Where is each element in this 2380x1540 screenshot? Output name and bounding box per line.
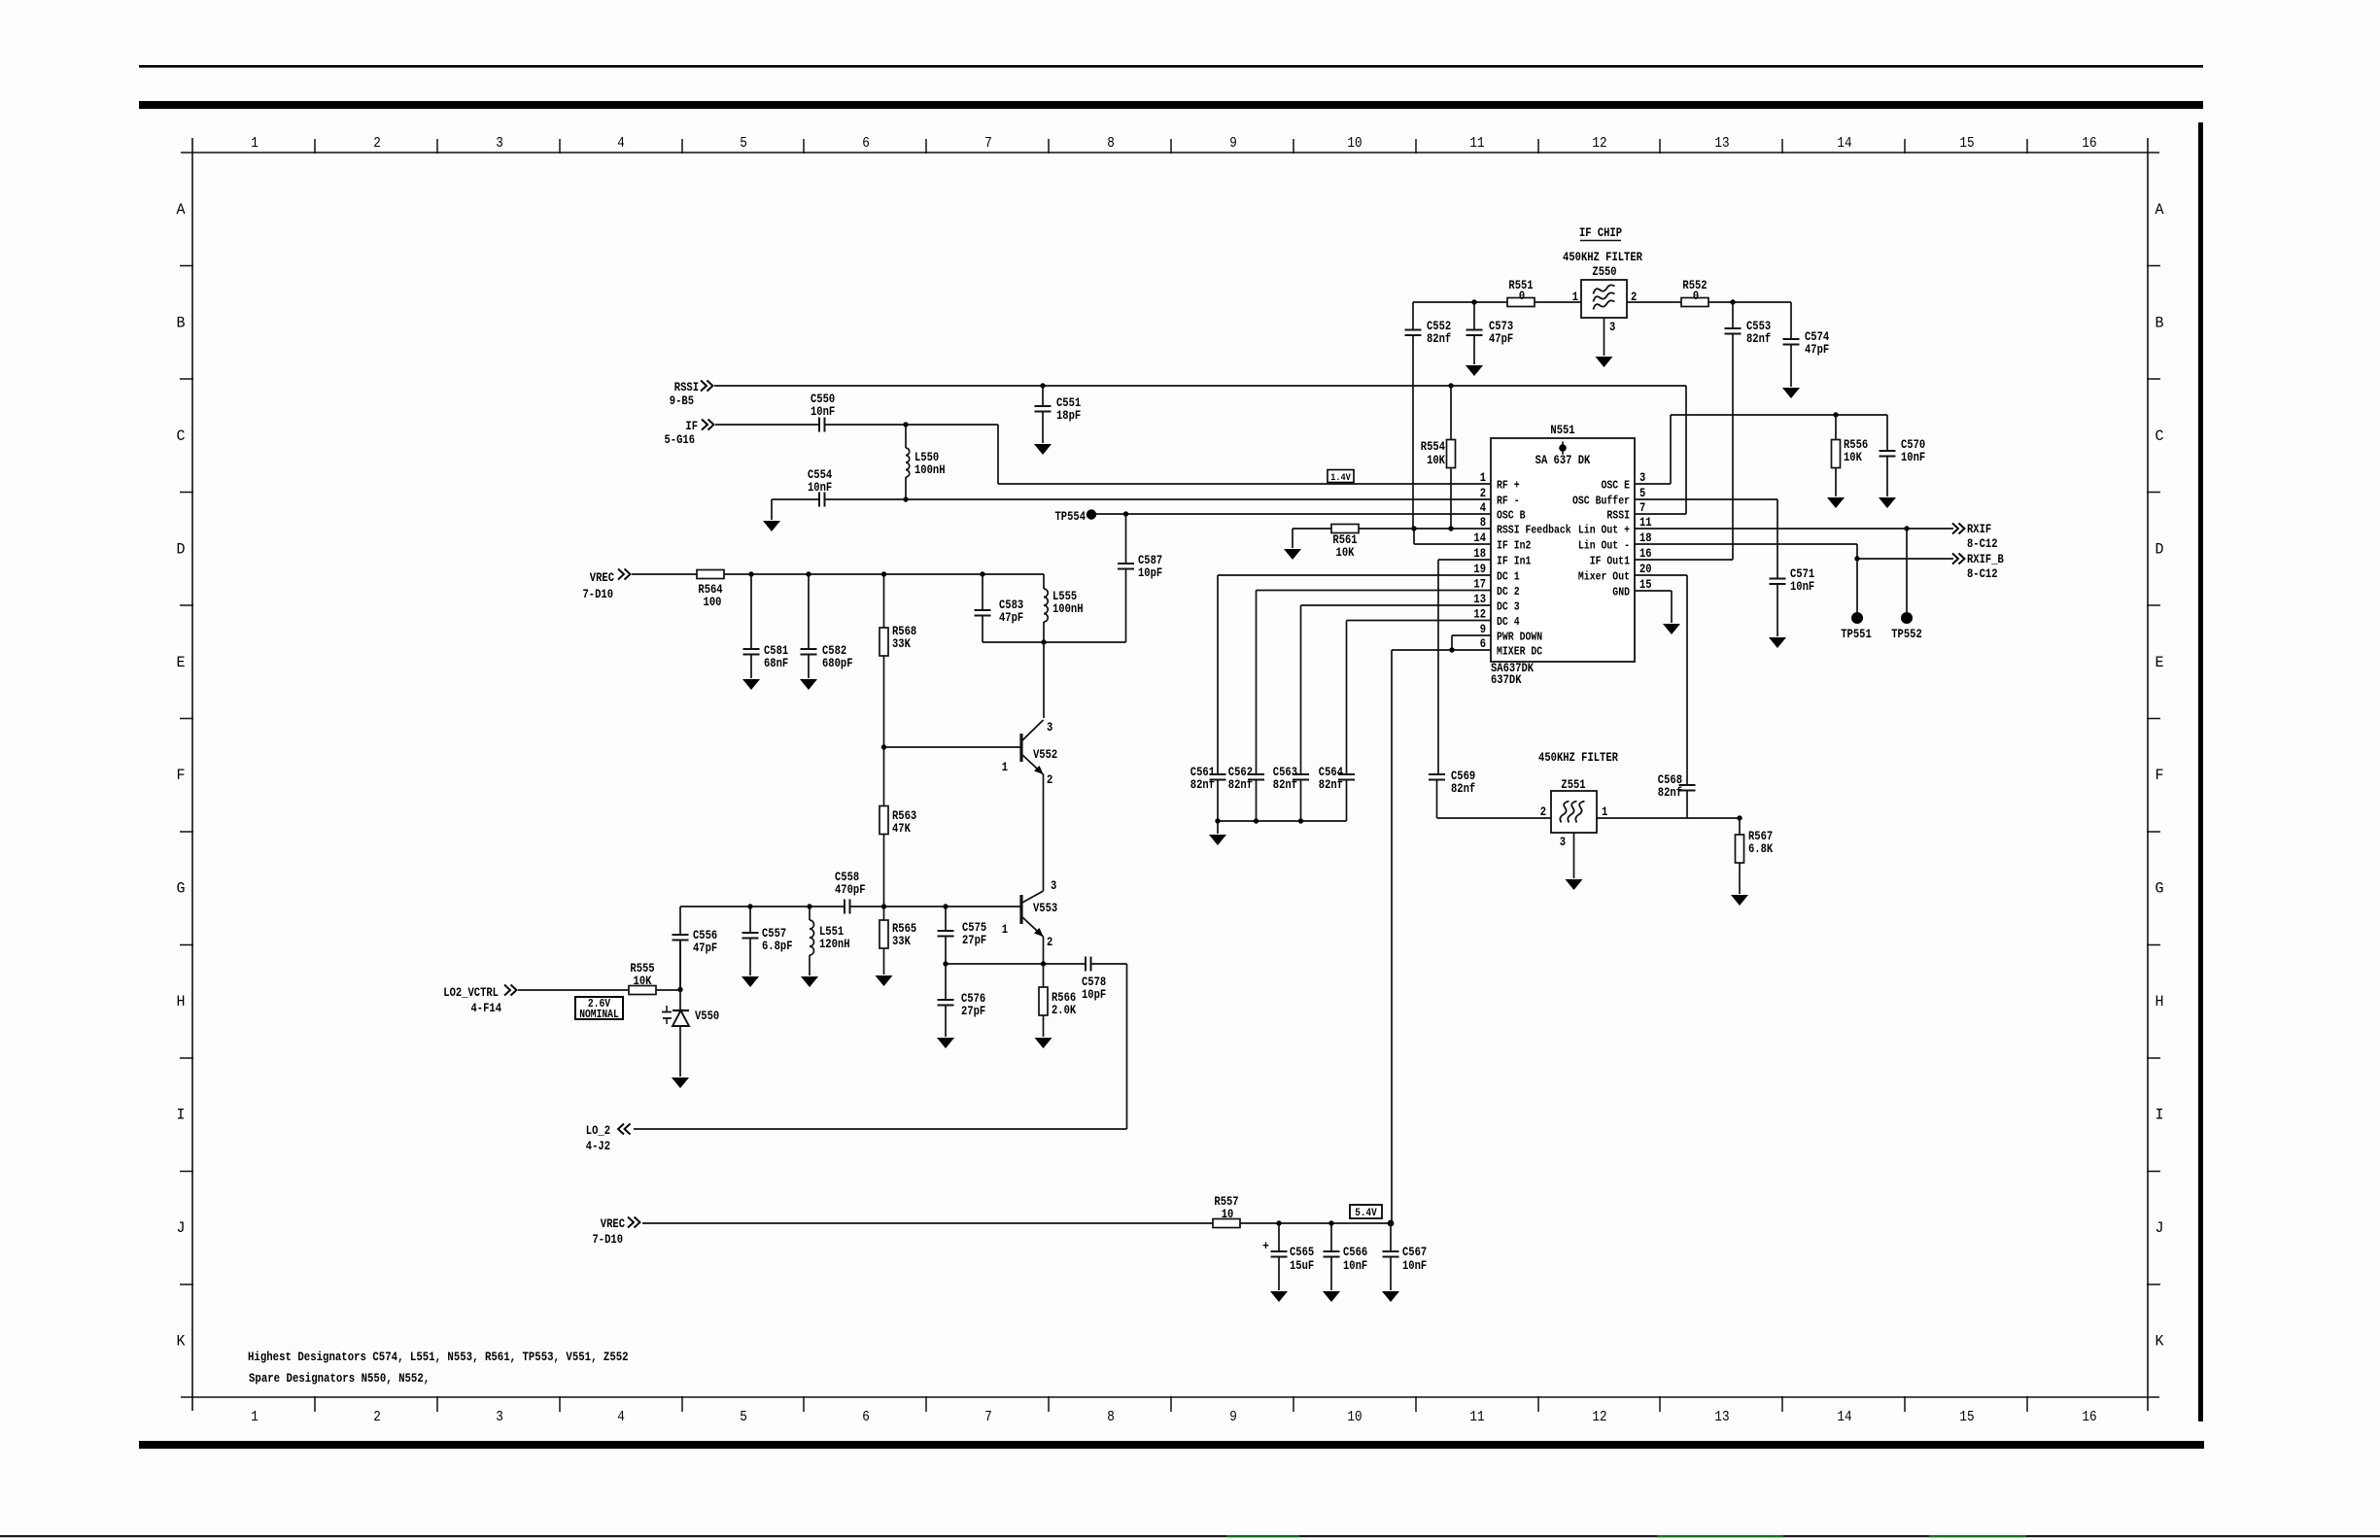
capacitor C587 [1125, 514, 1127, 564]
svg-text:C587: C587 [1138, 554, 1162, 567]
svg-text:10K: 10K [634, 975, 652, 988]
transistor V552 [1043, 642, 1045, 718]
svg-text:C582: C582 [822, 644, 846, 658]
wire R552 to C553/C574 node [1708, 301, 1791, 303]
ground below Z550 [1596, 357, 1613, 367]
svg-text:5.4V: 5.4V [1355, 1208, 1377, 1219]
capacitor C569 [1429, 773, 1445, 775]
wire R551 to Z550 [1535, 301, 1581, 303]
svg-text:7: 7 [984, 135, 992, 152]
svg-text:B: B [2156, 314, 2164, 331]
svg-text:15: 15 [1639, 578, 1652, 592]
svg-text:IF In2: IF In2 [1497, 539, 1531, 553]
ground below R567 [1731, 895, 1748, 906]
ground below C582 [800, 679, 817, 690]
wire RF+ line to pin 1 [998, 483, 1491, 485]
wire Lin Out - to RXIF_B [1635, 543, 1857, 545]
wire LO2_VCTRL to R555 [518, 989, 629, 991]
wire Z551 pin3 to ground [1573, 833, 1575, 878]
wire R555 to varactor node [656, 989, 680, 991]
svg-text:E: E [177, 654, 186, 671]
capacitor C552 [1412, 302, 1414, 330]
svg-text:450KHZ FILTER: 450KHZ FILTER [1538, 751, 1618, 765]
wire C578 to LO_2 line [1091, 963, 1127, 965]
svg-text:10K: 10K [1427, 454, 1445, 467]
svg-text:6: 6 [862, 135, 870, 152]
svg-text:C557: C557 [762, 927, 786, 941]
node RXIF_B 8-C12 [1952, 554, 1965, 565]
svg-text:H: H [2156, 993, 2164, 1010]
wire Z550 to R552 [1627, 301, 1681, 303]
svg-text:2: 2 [1540, 805, 1546, 819]
wire OSC E net [1635, 483, 1671, 485]
svg-text:5: 5 [1639, 487, 1645, 500]
svg-text:Highest Designators C574, L551: Highest Designators C574, L551, N553, R5… [248, 1350, 629, 1364]
svg-text:1: 1 [1002, 761, 1009, 774]
svg-text:68nF: 68nF [764, 657, 788, 670]
svg-text:0: 0 [1519, 290, 1525, 303]
svg-text:OSC B: OSC B [1497, 509, 1526, 523]
svg-text:IF CHIP: IF CHIP [1579, 226, 1622, 240]
svg-text:12: 12 [1592, 135, 1606, 152]
testpoint TP552 [1906, 529, 1908, 612]
svg-text:8-C12: 8-C12 [1967, 567, 1998, 581]
svg-text:33K: 33K [892, 637, 911, 651]
svg-text:16: 16 [2082, 135, 2096, 152]
wire DC4 to C564 [1347, 620, 1492, 622]
svg-text:15: 15 [1959, 135, 1974, 152]
svg-text:3: 3 [1609, 321, 1615, 334]
svg-text:2: 2 [1047, 936, 1052, 949]
capacitor C582 [808, 574, 810, 649]
svg-text:4-F14: 4-F14 [471, 1002, 502, 1015]
svg-text:C: C [177, 428, 186, 445]
capacitor C574 [1790, 302, 1792, 339]
svg-text:9-B5: 9-B5 [670, 394, 694, 408]
svg-text:OSC Buffer: OSC Buffer [1572, 495, 1630, 508]
ground below R566 [1035, 1038, 1052, 1048]
svg-text:C558: C558 [835, 871, 859, 884]
svg-text:C569: C569 [1451, 770, 1475, 783]
capacitor C550 [818, 418, 820, 432]
svg-text:I: I [177, 1107, 186, 1124]
svg-text:18: 18 [1473, 547, 1486, 561]
wire LO_2 line [634, 1128, 1127, 1130]
wire Lin Out + to RXIF [1635, 528, 1953, 530]
svg-text:MIXER DC: MIXER DC [1497, 645, 1542, 659]
resistor R551 [1507, 298, 1535, 307]
svg-text:A: A [177, 201, 187, 219]
net label 1.4V [1328, 470, 1354, 483]
svg-text:H: H [177, 993, 186, 1010]
svg-text:D: D [177, 540, 186, 558]
wire VREC to R564 [632, 573, 697, 575]
svg-text:47pF: 47pF [1489, 332, 1513, 346]
svg-text:13: 13 [1714, 1409, 1729, 1425]
svg-text:3: 3 [496, 1409, 503, 1425]
svg-text:82nf: 82nf [1273, 778, 1297, 792]
wire C550 to RF+ corner [825, 424, 999, 426]
svg-text:450KHZ FILTER: 450KHZ FILTER [1563, 251, 1642, 264]
svg-text:R564: R564 [698, 583, 723, 597]
svg-text:8: 8 [1480, 516, 1486, 530]
svg-text:VREC: VREC [601, 1217, 626, 1231]
svg-text:C578: C578 [1082, 975, 1106, 989]
wire OSC Buffer to C571 [1635, 498, 1777, 500]
svg-text:10nF: 10nF [808, 481, 832, 495]
wire C552 node to R551 [1413, 301, 1507, 303]
ground below C570 [1879, 497, 1896, 508]
resistor R567 [1739, 818, 1741, 835]
svg-text:82nf: 82nf [1228, 778, 1253, 792]
svg-text:J: J [177, 1219, 186, 1237]
svg-text:10: 10 [1347, 135, 1362, 152]
wire DC2 to C562 [1257, 590, 1492, 592]
wire V552 base line [884, 746, 1022, 748]
wire oscillator base bus [680, 906, 845, 907]
node RXIF 8-C12 [1952, 524, 1965, 534]
svg-text:7: 7 [984, 1409, 992, 1425]
capacitor C570 [1886, 415, 1888, 451]
svg-text:C553: C553 [1746, 320, 1771, 333]
svg-text:C575: C575 [962, 921, 986, 935]
svg-text:4: 4 [1480, 501, 1487, 515]
svg-text:6.8pF: 6.8pF [762, 940, 793, 953]
svg-text:L551: L551 [819, 925, 845, 939]
svg-text:F: F [2156, 767, 2164, 784]
svg-text:2: 2 [1480, 487, 1486, 500]
ground below C574 [1782, 388, 1800, 398]
svg-text:82nf: 82nf [1319, 778, 1343, 792]
svg-text:10nF: 10nF [1901, 451, 1925, 464]
wire DC1 to C561 [1218, 574, 1491, 576]
wire Mixer Out down [1635, 574, 1687, 576]
diode V550 varactor [679, 990, 681, 1011]
svg-text:12: 12 [1473, 608, 1486, 622]
svg-text:RF -: RF - [1497, 495, 1520, 508]
capacitor C578 [1085, 957, 1087, 972]
svg-text:1: 1 [1480, 471, 1487, 485]
capacitor C562 [1248, 773, 1264, 775]
svg-text:RSSI: RSSI [1606, 509, 1630, 523]
ground below pin 15 [1663, 624, 1680, 634]
svg-text:V553: V553 [1033, 902, 1057, 915]
ground below C573 [1466, 365, 1483, 376]
svg-text:11: 11 [1469, 135, 1484, 152]
ground below C557 [742, 976, 759, 987]
svg-text:NOMINAL: NOMINAL [579, 1009, 619, 1021]
wire 5.4V rail [1240, 1222, 1391, 1224]
svg-text:DC 3: DC 3 [1497, 600, 1520, 614]
wire MIXER DC line [1392, 649, 1491, 651]
wire IF In2 jog [1414, 543, 1491, 545]
resistor R554 [1448, 383, 1453, 388]
svg-text:R556: R556 [1844, 438, 1868, 452]
capacitor C571 [1776, 499, 1778, 579]
resistor R552 [1681, 298, 1708, 307]
capacitor C557 [749, 907, 751, 933]
ground below R561 stub [1284, 549, 1301, 560]
svg-text:Mixer Out: Mixer Out [1578, 570, 1630, 584]
svg-text:13: 13 [1473, 593, 1486, 606]
svg-text:C564: C564 [1319, 766, 1344, 779]
svg-text:C583: C583 [999, 599, 1023, 612]
svg-text:L555: L555 [1052, 590, 1077, 603]
wire R561 left to ground stub [1293, 528, 1331, 530]
ground below R556 [1827, 497, 1845, 508]
svg-text:1: 1 [1602, 805, 1608, 819]
svg-text:11: 11 [1639, 516, 1652, 530]
svg-text:TP554: TP554 [1055, 510, 1087, 524]
capacitor C583 [982, 574, 983, 610]
svg-text:PWR DOWN: PWR DOWN [1497, 631, 1542, 644]
inductor L551 [809, 907, 811, 920]
svg-text:+: + [1262, 1239, 1269, 1253]
capacitor C568 [1686, 575, 1688, 785]
svg-text:100nH: 100nH [1052, 602, 1084, 616]
wire DC bypass ground bus [1218, 820, 1347, 822]
capacitor C554 [818, 493, 820, 507]
svg-text:Spare Designators N550, N552,: Spare Designators N550, N552, [249, 1371, 430, 1386]
capacitor C558 [844, 900, 845, 914]
svg-text:A: A [2156, 201, 2165, 219]
ground below C581 [742, 679, 760, 690]
svg-text:6: 6 [1480, 637, 1486, 651]
svg-text:3: 3 [1051, 879, 1056, 893]
svg-text:C568: C568 [1658, 773, 1682, 787]
capacitor C553 [1732, 302, 1734, 328]
wire tank bottom to C587 [983, 641, 1126, 643]
svg-text:1: 1 [251, 135, 259, 152]
svg-text:47pF: 47pF [999, 611, 1023, 625]
svg-text:4: 4 [617, 135, 625, 152]
wire VREC rail [724, 573, 1044, 575]
svg-text:C556: C556 [693, 929, 717, 942]
ground below C571 [1769, 637, 1786, 648]
svg-text:10pF: 10pF [1138, 566, 1162, 580]
svg-text:15: 15 [1959, 1409, 1974, 1425]
wire GND pin15 stub [1635, 590, 1672, 592]
svg-text:VREC: VREC [590, 571, 615, 585]
resistor R555 [629, 986, 656, 995]
svg-text:F: F [177, 767, 186, 784]
svg-text:SA 637 DK: SA 637 DK [1535, 454, 1591, 467]
svg-text:14: 14 [1837, 135, 1851, 152]
svg-text:R557: R557 [1214, 1195, 1238, 1209]
svg-text:C574: C574 [1805, 330, 1830, 344]
svg-text:C561: C561 [1190, 766, 1216, 779]
svg-text:9: 9 [1480, 623, 1486, 636]
svg-text:47pF: 47pF [693, 941, 717, 955]
svg-text:20: 20 [1639, 563, 1652, 576]
svg-text:C550: C550 [811, 393, 835, 406]
svg-text:RSSI Feedback: RSSI Feedback [1497, 524, 1571, 537]
ground below Z551 [1566, 879, 1583, 890]
svg-text:C573: C573 [1489, 320, 1513, 333]
svg-text:RSSI: RSSI [674, 381, 699, 394]
svg-text:N551: N551 [1550, 424, 1575, 437]
svg-text:DC 1: DC 1 [1497, 570, 1520, 584]
capacitor C564 [1338, 773, 1355, 775]
svg-text:G: G [2156, 880, 2164, 898]
wire IF In1 to C569 [1438, 559, 1491, 561]
resistor R566 [1043, 964, 1045, 987]
svg-text:16: 16 [2082, 1409, 2096, 1425]
resistor R556 [1835, 415, 1837, 440]
svg-text:10nF: 10nF [1402, 1259, 1427, 1273]
capacitor C575 [945, 907, 947, 931]
net label 5.4V [1350, 1205, 1382, 1218]
svg-text:Z551: Z551 [1561, 778, 1586, 792]
svg-text:100: 100 [704, 596, 722, 609]
svg-text:IF: IF [685, 420, 698, 433]
svg-text:680pF: 680pF [822, 657, 853, 670]
svg-text:18pF: 18pF [1056, 409, 1081, 423]
svg-text:82nf: 82nf [1451, 782, 1475, 796]
svg-text:C576: C576 [961, 992, 985, 1006]
svg-text:7: 7 [1639, 501, 1645, 515]
svg-text:0: 0 [1693, 290, 1699, 303]
svg-text:5: 5 [740, 1409, 747, 1425]
svg-text:C552: C552 [1427, 320, 1451, 333]
capacitor C581 [750, 574, 752, 649]
capacitor C561 [1210, 773, 1226, 775]
inductor L555 [1043, 574, 1045, 589]
svg-text:Z550: Z550 [1592, 265, 1616, 279]
svg-text:4: 4 [617, 1409, 625, 1425]
svg-text:10: 10 [1347, 1409, 1362, 1425]
svg-text:27pF: 27pF [962, 934, 986, 947]
svg-text:C554: C554 [808, 468, 833, 482]
svg-text:C565: C565 [1290, 1246, 1314, 1259]
wire OSC B line to pin 4 [1096, 513, 1491, 515]
svg-text:DC 4: DC 4 [1497, 615, 1520, 629]
svg-text:C551: C551 [1056, 396, 1082, 410]
capacitor C556 [679, 907, 681, 935]
capacitor C567 [1390, 1223, 1392, 1251]
svg-text:Lin Out -: Lin Out - [1578, 539, 1630, 553]
svg-text:TP552: TP552 [1891, 628, 1922, 641]
svg-text:C566: C566 [1343, 1246, 1367, 1259]
svg-text:16: 16 [1639, 547, 1652, 561]
inductor L550 [905, 425, 907, 448]
svg-text:8: 8 [1107, 135, 1115, 152]
wire RF- line to pin 2 [825, 498, 1492, 500]
svg-text:2: 2 [373, 1409, 381, 1425]
svg-text:8-C12: 8-C12 [1967, 537, 1998, 551]
svg-text:19: 19 [1473, 563, 1486, 576]
capacitor C576 [945, 964, 947, 1000]
wire IF line to C550 [715, 424, 819, 426]
svg-text:13: 13 [1714, 135, 1729, 152]
wire V553 emitter bus [1043, 937, 1045, 964]
svg-text:C567: C567 [1402, 1246, 1427, 1259]
svg-text:RXIF_B: RXIF_B [1967, 553, 2004, 566]
resistor R563 [883, 747, 885, 806]
svg-text:RXIF: RXIF [1967, 523, 1991, 536]
svg-text:TP551: TP551 [1841, 628, 1872, 641]
svg-text:470pF: 470pF [835, 883, 866, 897]
svg-text:R568: R568 [892, 625, 916, 638]
svg-text:C581: C581 [764, 644, 789, 658]
wire Z550 pin3 to ground [1604, 318, 1605, 356]
svg-text:L550: L550 [914, 451, 939, 464]
svg-text:4-J2: 4-J2 [586, 1140, 610, 1153]
svg-text:15uF: 15uF [1290, 1259, 1314, 1273]
ground below DC bus [1209, 835, 1226, 845]
testpoint TP551 [1856, 559, 1858, 612]
ground below C576 [937, 1038, 954, 1048]
capacitor C573 [1473, 302, 1475, 330]
svg-text:120nH: 120nH [819, 938, 850, 951]
ground below R565 [876, 975, 893, 986]
svg-text:C563: C563 [1273, 766, 1297, 779]
svg-text:3: 3 [1560, 836, 1566, 849]
svg-text:1: 1 [1002, 923, 1009, 937]
ic N551 SA 637 DK [1491, 438, 1635, 662]
resistor R557 [1213, 1219, 1240, 1228]
svg-text:I: I [2156, 1107, 2164, 1124]
svg-text:47pF: 47pF [1805, 343, 1829, 357]
svg-text:R554: R554 [1421, 440, 1446, 454]
ground below C551 [1034, 444, 1052, 455]
resistor R561 [1331, 525, 1359, 533]
wire VREC to R557 [642, 1222, 1213, 1224]
svg-text:G: G [177, 880, 186, 898]
svg-text:10: 10 [1222, 1208, 1234, 1221]
svg-text:R555: R555 [630, 962, 654, 975]
svg-text:R563: R563 [892, 809, 916, 823]
svg-text:10K: 10K [1844, 451, 1862, 464]
svg-text:C562: C562 [1228, 766, 1253, 779]
svg-text:637DK: 637DK [1491, 673, 1522, 687]
svg-text:V552: V552 [1033, 748, 1057, 762]
svg-text:E: E [2156, 654, 2164, 671]
svg-text:2.0K: 2.0K [1052, 1004, 1077, 1017]
svg-text:3: 3 [1639, 471, 1645, 485]
svg-text:9: 9 [1229, 1409, 1237, 1425]
svg-text:1: 1 [251, 1409, 259, 1425]
svg-text:10pF: 10pF [1082, 988, 1106, 1002]
svg-text:11: 11 [1469, 1409, 1484, 1425]
svg-text:DC 2: DC 2 [1497, 585, 1520, 599]
svg-text:OSC E: OSC E [1602, 479, 1631, 493]
wire C569 to Z551 pin 2 [1437, 817, 1552, 819]
svg-text:GND: GND [1612, 586, 1630, 599]
svg-text:R561: R561 [1332, 533, 1358, 547]
svg-text:7-D10: 7-D10 [583, 588, 614, 601]
capacitor C566 [1330, 1223, 1332, 1251]
svg-text:V550: V550 [695, 1010, 719, 1023]
wire PWR DOWN jog [1452, 634, 1491, 636]
svg-text:D: D [2156, 540, 2164, 558]
svg-text:R566: R566 [1052, 991, 1076, 1005]
svg-text:10nF: 10nF [811, 405, 835, 419]
ground below L551 [801, 976, 818, 987]
svg-text:3: 3 [1047, 721, 1052, 735]
svg-text:47K: 47K [892, 822, 911, 836]
svg-text:K: K [177, 1333, 187, 1351]
resistor R564 [697, 570, 724, 579]
svg-text:2: 2 [373, 135, 381, 152]
wire RSSI pin7 net [1635, 513, 1686, 515]
svg-text:82nf: 82nf [1190, 778, 1215, 792]
svg-text:10nF: 10nF [1790, 580, 1814, 594]
svg-text:18: 18 [1639, 531, 1652, 545]
svg-text:10nF: 10nF [1343, 1259, 1367, 1273]
svg-text:6.8K: 6.8K [1748, 842, 1774, 856]
svg-text:LO2_VCTRL: LO2_VCTRL [443, 986, 499, 1000]
